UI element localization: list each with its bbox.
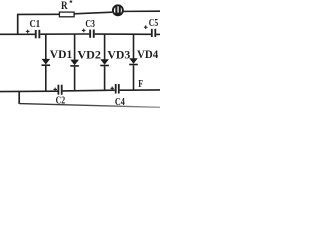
svg-text:VD1: VD1: [50, 47, 73, 61]
svg-text:F: F: [138, 78, 143, 90]
svg-text:C5: C5: [149, 17, 159, 29]
plus of C5: [144, 25, 148, 29]
svg-text:VD3: VD3: [107, 47, 130, 61]
wire top-left riser: [17, 14, 19, 34]
wire bottom rail left segment (input to C2): [0, 90, 58, 92]
svg-text:C3: C3: [85, 18, 95, 30]
capacitor C5: [151, 29, 156, 37]
plus of C1: [26, 30, 30, 34]
diode VD3: [100, 34, 109, 91]
label star of R: [69, 0, 73, 3]
diode VD4: [129, 34, 138, 90]
wire bottom-left riser: [18, 91, 20, 104]
wire top rail middle segment: [74, 12, 112, 14]
wire top rail left segment: [17, 13, 60, 15]
capacitor C1: [35, 30, 41, 39]
wire mid rail segment B (C1 to C3): [40, 33, 89, 35]
resistor R*: [59, 12, 74, 17]
svg-text:C1: C1: [30, 18, 41, 30]
svg-text:C2: C2: [56, 94, 66, 106]
wire top rail right segment: [124, 10, 161, 12]
plus of C2: [53, 88, 57, 92]
wire mid rail segment D (C5 to right edge): [156, 33, 160, 35]
diode VD2: [70, 34, 79, 91]
svg-text:C4: C4: [115, 96, 125, 108]
capacitor C3: [89, 30, 95, 38]
svg-text:VD2: VD2: [77, 47, 101, 61]
diode VD1: [42, 34, 51, 91]
wire left input to C1 (mid rail segment A): [0, 33, 35, 35]
capacitor C4: [115, 84, 120, 94]
wire lowest rail: [19, 104, 160, 108]
wire mid rail segment C (C3 to C5): [95, 33, 151, 35]
svg-text:VD4: VD4: [137, 47, 158, 61]
plus of C4: [110, 87, 114, 91]
lamp HL (flash tube): [113, 5, 123, 15]
capacitor C2: [58, 85, 63, 95]
wire bottom rail right segment (C4 to right edge): [120, 89, 160, 91]
wire bottom rail middle segment (C2 to C4): [63, 89, 115, 92]
svg-text:R: R: [61, 0, 68, 12]
plus of C3: [82, 29, 86, 33]
